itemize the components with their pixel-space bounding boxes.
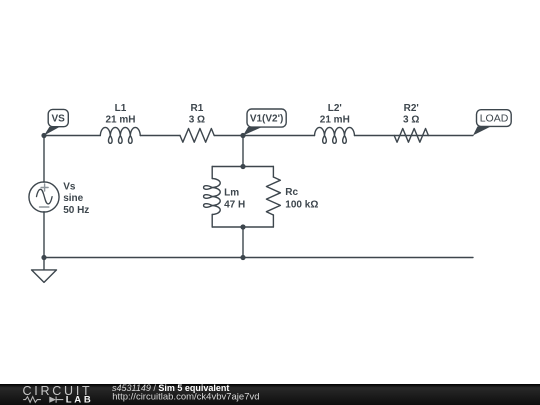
svg-text:R1: R1	[191, 103, 204, 114]
svg-text:http://circuitlab.com/ck4vbv7a: http://circuitlab.com/ck4vbv7aje7vd	[112, 392, 259, 403]
svg-text:3 Ω: 3 Ω	[403, 114, 419, 125]
svg-text:V1(V2'): V1(V2')	[250, 114, 284, 125]
svg-text:L2': L2'	[328, 103, 342, 114]
svg-text:21 mH: 21 mH	[320, 114, 350, 125]
svg-text:47 H: 47 H	[224, 199, 245, 210]
svg-text:L1: L1	[115, 103, 127, 114]
svg-text:LAB: LAB	[66, 394, 94, 405]
svg-text:50 Hz: 50 Hz	[63, 205, 89, 216]
svg-text:R2': R2'	[404, 103, 419, 114]
svg-text:sine: sine	[63, 193, 83, 204]
svg-text:LOAD: LOAD	[480, 112, 509, 124]
svg-text:3 Ω: 3 Ω	[189, 114, 205, 125]
svg-text:Lm: Lm	[224, 188, 239, 199]
svg-text:21 mH: 21 mH	[105, 114, 135, 125]
svg-text:100 kΩ: 100 kΩ	[285, 199, 318, 210]
svg-text:Vs: Vs	[63, 181, 76, 192]
svg-text:VS: VS	[52, 114, 66, 125]
svg-text:Rc: Rc	[285, 187, 298, 198]
